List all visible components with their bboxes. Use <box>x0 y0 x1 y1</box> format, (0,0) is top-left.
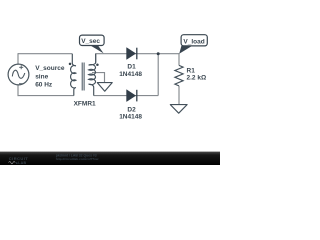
svg-text:V_source: V_source <box>35 65 65 72</box>
transformer XFMR1 secondary winding <box>89 54 96 96</box>
diode D2 <box>127 90 137 102</box>
wire left side top (source top lead) <box>17 53 19 64</box>
svg-text:▸LAB: ▸LAB <box>15 161 26 165</box>
wire secondary top lead <box>95 53 97 62</box>
svg-text:XFMR1: XFMR1 <box>74 100 96 107</box>
wire R1 bottom lead to ground <box>178 86 180 104</box>
svg-text:D2: D2 <box>127 106 136 113</box>
svg-text:V_load: V_load <box>183 38 204 45</box>
svg-text:V_sec: V_sec <box>81 38 100 45</box>
svg-text:sine: sine <box>35 73 48 80</box>
transformer primary phase dot <box>69 63 72 66</box>
wire bottom rail (secondary bottom through D2 to right riser) <box>94 95 159 97</box>
wire center tap to ground <box>92 73 105 83</box>
transformer secondary phase dot <box>96 64 99 67</box>
svg-text:http://circuitlab.com/csf77nw: http://circuitlab.com/csf77nw <box>56 157 99 161</box>
svg-text:D1: D1 <box>127 64 136 71</box>
voltage source V1 circle <box>8 64 29 85</box>
wire right riser (D2 cathode up to junction) <box>157 54 159 96</box>
wire R1 top lead <box>178 53 180 65</box>
footer logo wave <box>9 161 16 163</box>
net flag V_sec box <box>80 35 105 45</box>
resistor R1 zigzag <box>175 65 183 86</box>
ground (under R1) <box>170 105 187 114</box>
net flag V_load pointer <box>179 46 191 54</box>
svg-text:1N4148: 1N4148 <box>119 114 142 121</box>
svg-text:60 Hz: 60 Hz <box>35 81 53 88</box>
svg-text:2.2 kΩ: 2.2 kΩ <box>187 74 207 81</box>
net flag V_sec pointer <box>90 45 104 53</box>
transformer XFMR1 core lines <box>82 63 84 91</box>
transformer XFMR1 primary winding <box>71 54 76 96</box>
diode D1 <box>127 48 137 60</box>
plus sign of source <box>19 65 23 69</box>
wire V_sec node to D1 anode and on to R1 top <box>96 53 179 55</box>
junction dot at D1 cathode node <box>157 52 160 55</box>
net flag V_load box <box>181 35 207 46</box>
ground (secondary center tap) <box>97 83 112 92</box>
minus sign of source <box>19 83 23 85</box>
svg-text:1N4148: 1N4148 <box>119 71 142 78</box>
wire bottom-left (source to transformer primary bottom) <box>18 95 74 97</box>
wire left side bottom (source bottom lead) <box>17 85 19 96</box>
wire top-left (source to transformer primary) <box>18 53 72 55</box>
